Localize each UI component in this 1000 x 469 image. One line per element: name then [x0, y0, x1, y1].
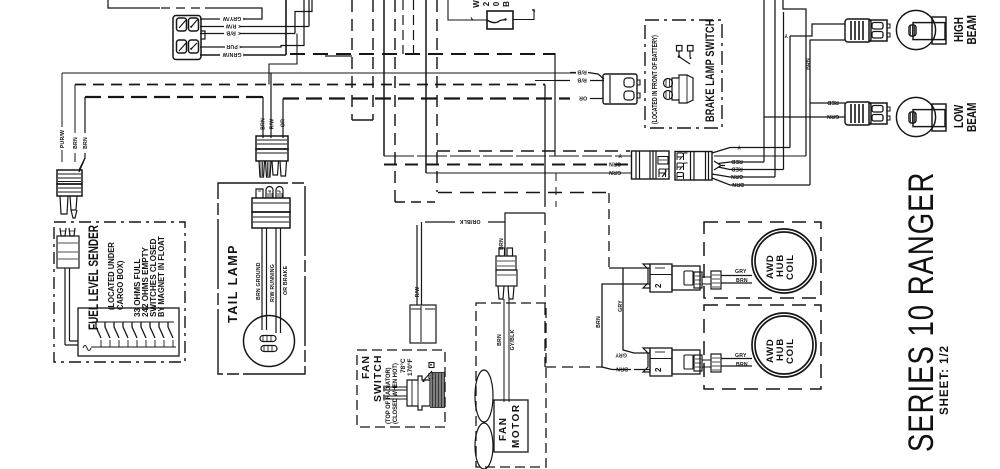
svg-text:GRN: GRN	[827, 113, 839, 119]
svg-text:SWITCH: SWITCH	[372, 355, 384, 402]
svg-text:BRN: BRN	[83, 137, 89, 149]
svg-text:78°C: 78°C	[399, 358, 407, 373]
svg-text:OR/BLK: OR/BLK	[459, 218, 480, 224]
svg-text:RED: RED	[827, 99, 839, 105]
svg-text:BRN: BRN	[596, 316, 602, 328]
svg-text:SERIES 10 RANGER: SERIES 10 RANGER	[901, 172, 941, 452]
svg-text:R/B: R/B	[226, 30, 236, 36]
svg-text:RED: RED	[731, 158, 743, 164]
svg-text:Y: Y	[618, 152, 622, 158]
svg-text:(LOCATED IN FRONT OF BATTERY): (LOCATED IN FRONT OF BATTERY)	[651, 35, 659, 124]
svg-text:FAN: FAN	[498, 417, 509, 442]
svg-text:R/W RUNNING: R/W RUNNING	[270, 264, 276, 302]
svg-text:(LOCATED UNDER: (LOCATED UNDER	[107, 242, 116, 310]
svg-text:BEAM: BEAM	[966, 15, 979, 44]
svg-text:GRN: GRN	[731, 173, 743, 179]
svg-text:GRN: GRN	[609, 169, 621, 175]
svg-text:GRY/W: GRY/W	[223, 15, 241, 21]
svg-text:R/B: R/B	[577, 77, 587, 83]
svg-text:BRAKE LAMP SWITCH: BRAKE LAMP SWITCH	[705, 19, 717, 122]
svg-text:CARGO BOX): CARGO BOX)	[116, 260, 125, 310]
svg-text:BRN: BRN	[261, 118, 267, 130]
svg-text:PUR/W: PUR/W	[60, 130, 66, 148]
svg-text:R/B: R/B	[577, 69, 587, 75]
svg-text:GRY: GRY	[615, 351, 627, 357]
svg-text:170°F: 170°F	[406, 359, 414, 376]
svg-text:0: 0	[492, 1, 501, 6]
svg-text:Y: Y	[737, 144, 741, 150]
svg-text:GRN: GRN	[609, 161, 621, 167]
svg-text:GRY: GRY	[618, 300, 624, 312]
svg-text:COIL: COIL	[785, 254, 796, 280]
svg-text:GRY: GRY	[735, 353, 747, 359]
svg-text:BRN: BRN	[497, 334, 503, 346]
svg-text:B: B	[502, 1, 511, 7]
svg-text:FUEL LEVEL SENDER: FUEL LEVEL SENDER	[85, 225, 101, 330]
svg-text:LOW: LOW	[953, 104, 966, 128]
svg-text:FAN: FAN	[360, 355, 372, 379]
svg-text:SHEET: 1/2: SHEET: 1/2	[939, 345, 951, 415]
svg-text:BRN: BRN	[73, 137, 79, 149]
svg-text:BEAM: BEAM	[966, 103, 979, 132]
svg-text:GRY: GRY	[735, 269, 747, 275]
svg-text:OR: OR	[579, 95, 587, 101]
svg-text:COIL: COIL	[785, 338, 796, 364]
svg-text:BRN: BRN	[806, 58, 812, 70]
svg-text:OR: OR	[281, 119, 287, 127]
svg-text:2: 2	[654, 283, 663, 288]
svg-text:BRN: BRN	[736, 278, 748, 284]
svg-text:R/W: R/W	[270, 119, 276, 130]
svg-text:2: 2	[654, 367, 663, 372]
svg-text:BRN: BRN	[616, 366, 628, 372]
svg-text:PUR: PUR	[226, 43, 238, 49]
svg-text:BY MAGNET IN FLOAT: BY MAGNET IN FLOAT	[157, 236, 167, 317]
svg-text:R/W: R/W	[226, 23, 237, 29]
svg-text:OR BRAKE: OR BRAKE	[283, 265, 289, 295]
svg-text:BRN: BRN	[499, 238, 505, 250]
svg-text:BRN: BRN	[736, 362, 748, 368]
svg-text:(CLOSED WHEN HOT): (CLOSED WHEN HOT)	[392, 363, 400, 424]
svg-text:RED: RED	[731, 166, 743, 172]
svg-text:BRN: BRN	[732, 181, 744, 187]
svg-text:MOTOR: MOTOR	[511, 403, 522, 448]
svg-text:W: W	[472, 0, 481, 8]
svg-text:GY/BLK: GY/BLK	[510, 330, 516, 351]
svg-text:2: 2	[482, 1, 491, 6]
svg-text:HIGH: HIGH	[953, 17, 966, 42]
svg-text:Y: Y	[784, 32, 788, 38]
svg-text:GRN/W: GRN/W	[223, 51, 242, 57]
svg-text:TAIL LAMP: TAIL LAMP	[226, 244, 240, 323]
svg-text:BRN GROUND: BRN GROUND	[256, 262, 262, 300]
svg-text:R/W: R/W	[415, 287, 421, 298]
